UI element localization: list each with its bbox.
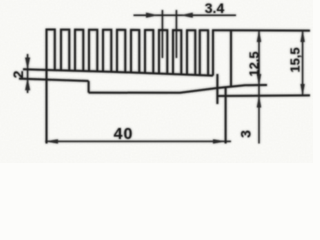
fin 5 (103, 30, 111, 72)
15,5 dimension line (302, 30, 304, 96)
dimension 15,5 (300, 30, 304, 96)
heatsink profile: fins (47, 30, 214, 76)
top edge right block + top extension line (212, 29, 310, 31)
3.4 right extension (175, 10, 177, 58)
main bottom edge + right extension (89, 85, 267, 93)
right edge of block (230, 30, 232, 86)
last slot wall (212, 30, 214, 75)
fin 11 (187, 30, 195, 75)
left profile edge + 40 extension (46, 69, 48, 143)
12.5/3 dimension line (258, 30, 260, 144)
paper background (0, 0, 313, 163)
svg-text:2: 2 (10, 70, 26, 78)
step down at x=88.6 (88, 81, 90, 93)
left step bottom edge (19, 79, 89, 81)
fin 7 (131, 30, 139, 73)
15,5 top arrow (300, 30, 304, 42)
right base step vertical (216, 74, 218, 104)
fin 3 (75, 30, 83, 71)
svg-text:40: 40 (114, 126, 134, 143)
40 left arrow (45, 139, 58, 143)
3.4 dimension line (134, 14, 237, 16)
svg-text:3: 3 (238, 130, 254, 138)
fin 2 (61, 30, 69, 71)
base bottom line + extension to 15,5 (217, 94, 310, 97)
3.4 left arrow (146, 13, 158, 18)
dimension 3.4 (134, 10, 237, 58)
svg-text:3.4: 3.4 (205, 0, 225, 16)
svg-text:12.5: 12.5 (247, 51, 262, 76)
2 upper arrow (25, 58, 30, 70)
fin 8 (145, 30, 153, 73)
2 dimension line (27, 54, 29, 93)
fin 1 (47, 30, 55, 70)
fin 10 (173, 30, 181, 74)
12.5 top arrow (257, 30, 261, 42)
fin 4 (89, 30, 97, 71)
dimension 2 (25, 54, 30, 93)
40 right extension line (225, 88, 227, 144)
3 bottom arrow (257, 96, 261, 108)
3.4 right arrow (181, 13, 193, 18)
40 dimension line (45, 140, 231, 142)
fin 6 (117, 30, 125, 73)
15,5 bottom arrow (300, 84, 304, 96)
svg-text:15,5: 15,5 (288, 47, 303, 72)
dimension 12.5 and 3 shared line (257, 30, 261, 144)
base top surface + 2 extension line (23, 69, 213, 75)
dimension 40 (45, 139, 231, 143)
12.5 bottom arrow (257, 74, 261, 86)
2 lower arrow (25, 78, 30, 90)
40 right arrow (213, 139, 226, 143)
fin 9 (159, 30, 167, 74)
fin 12 (200, 30, 208, 75)
3.4 left extension (161, 10, 163, 58)
